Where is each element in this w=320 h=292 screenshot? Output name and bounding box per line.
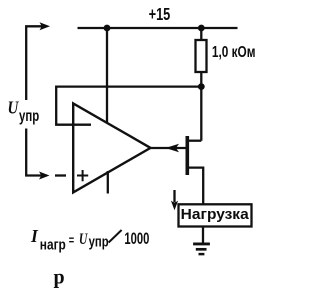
svg-text:нагр: нагр (40, 237, 66, 254)
svg-text:U: U (8, 98, 20, 118)
svg-text:1000: 1000 (124, 230, 149, 248)
svg-text:U: U (79, 231, 88, 248)
svg-text:Нагрузка: Нагрузка (181, 206, 250, 223)
svg-text:I: I (30, 226, 39, 246)
svg-text:упр: упр (89, 234, 109, 251)
svg-text:р: р (54, 267, 65, 289)
svg-text:+15: +15 (149, 4, 171, 24)
svg-text:1,0 кОм: 1,0 кОм (212, 44, 256, 61)
svg-text:упр: упр (19, 108, 39, 125)
svg-text:=: = (69, 233, 75, 248)
